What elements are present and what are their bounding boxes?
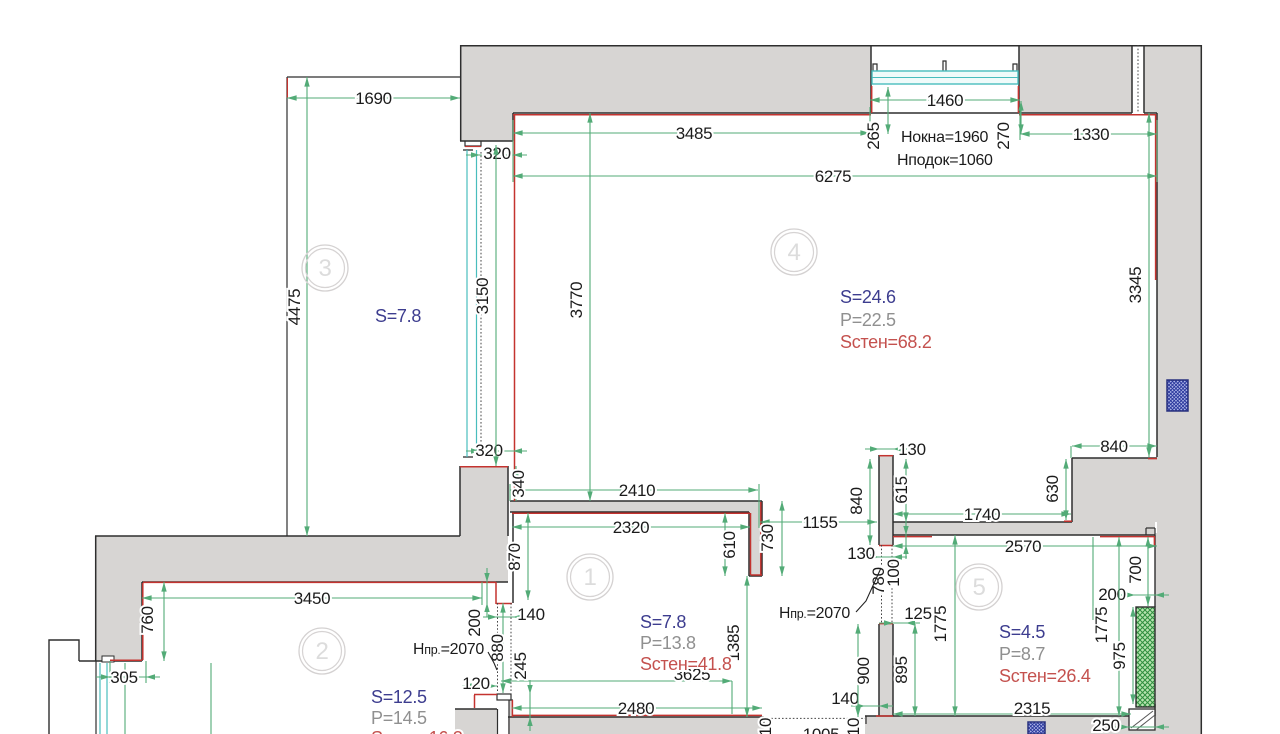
svg-text:Sстен=41.8: Sстен=41.8 — [640, 654, 732, 674]
svg-text:3485: 3485 — [676, 124, 713, 143]
svg-text:110: 110 — [844, 718, 863, 734]
svg-text:630: 630 — [1043, 475, 1062, 502]
svg-text:730: 730 — [758, 524, 777, 551]
svg-text:Sстен=16.3: Sстен=16.3 — [371, 728, 463, 734]
svg-text:4475: 4475 — [285, 289, 304, 326]
svg-text:110: 110 — [756, 718, 775, 734]
svg-text:5: 5 — [972, 574, 985, 601]
svg-text:Нокна=1960: Нокна=1960 — [901, 129, 989, 146]
svg-text:140: 140 — [831, 689, 858, 708]
svg-text:610: 610 — [720, 531, 739, 558]
svg-text:P=22.5: P=22.5 — [840, 310, 896, 330]
svg-text:870: 870 — [505, 543, 524, 570]
svg-text:1775: 1775 — [931, 606, 950, 643]
svg-text:2315: 2315 — [1014, 699, 1051, 718]
svg-text:1: 1 — [583, 564, 596, 591]
svg-text:320: 320 — [483, 144, 510, 163]
svg-text:3: 3 — [318, 255, 331, 282]
svg-text:305: 305 — [110, 668, 137, 687]
svg-text:200: 200 — [1098, 585, 1125, 604]
svg-text:700: 700 — [1126, 556, 1145, 583]
svg-text:2320: 2320 — [613, 518, 650, 537]
svg-text:P=8.7: P=8.7 — [999, 644, 1045, 664]
svg-text:760: 760 — [138, 606, 157, 633]
svg-text:1460: 1460 — [927, 91, 964, 110]
svg-text:Sстен=68.2: Sстен=68.2 — [840, 332, 932, 352]
svg-text:1155: 1155 — [802, 513, 837, 532]
svg-text:S=24.6: S=24.6 — [840, 287, 896, 307]
svg-text:3345: 3345 — [1126, 267, 1145, 304]
svg-text:840: 840 — [1100, 437, 1127, 456]
svg-text:1740: 1740 — [964, 505, 1001, 524]
svg-text:P=14.5: P=14.5 — [371, 708, 427, 728]
svg-text:270: 270 — [994, 122, 1013, 149]
svg-text:P=13.8: P=13.8 — [640, 633, 696, 653]
svg-text:200: 200 — [465, 609, 484, 636]
svg-text:Нподок=1060: Нподок=1060 — [897, 152, 993, 169]
svg-text:2: 2 — [315, 638, 328, 665]
svg-text:130: 130 — [847, 544, 874, 563]
svg-text:900: 900 — [854, 657, 873, 684]
svg-text:975: 975 — [1110, 642, 1129, 669]
svg-text:3450: 3450 — [294, 589, 331, 608]
svg-text:1005: 1005 — [803, 725, 840, 734]
svg-text:615: 615 — [892, 476, 911, 503]
svg-text:4: 4 — [787, 239, 800, 266]
svg-text:2480: 2480 — [618, 699, 655, 718]
svg-text:245: 245 — [511, 652, 530, 679]
svg-text:2570: 2570 — [1005, 537, 1042, 556]
svg-text:1690: 1690 — [355, 89, 392, 108]
svg-text:Sстен=26.4: Sстен=26.4 — [999, 666, 1091, 686]
svg-text:Нпр.=2070: Нпр.=2070 — [413, 641, 484, 658]
svg-text:250: 250 — [1092, 716, 1119, 734]
svg-text:130: 130 — [898, 440, 925, 459]
svg-text:140: 140 — [517, 605, 544, 624]
svg-text:2410: 2410 — [619, 481, 656, 500]
svg-text:125: 125 — [904, 604, 931, 623]
svg-text:3770: 3770 — [567, 282, 586, 319]
svg-text:265: 265 — [864, 122, 883, 149]
svg-text:S=7.8: S=7.8 — [640, 612, 686, 632]
svg-text:S=12.5: S=12.5 — [371, 687, 427, 707]
svg-text:Нпр.=2070: Нпр.=2070 — [779, 605, 850, 622]
svg-text:840: 840 — [847, 487, 866, 514]
svg-text:6275: 6275 — [815, 167, 852, 186]
svg-text:3150: 3150 — [473, 278, 492, 315]
svg-text:S=7.8: S=7.8 — [375, 306, 421, 326]
svg-text:320: 320 — [475, 441, 502, 460]
svg-text:120: 120 — [462, 674, 489, 693]
svg-text:S=4.5: S=4.5 — [999, 622, 1045, 642]
svg-text:1330: 1330 — [1073, 125, 1110, 144]
svg-text:340: 340 — [509, 470, 528, 497]
svg-text:780: 780 — [869, 567, 888, 594]
svg-text:1775: 1775 — [1092, 607, 1111, 644]
svg-text:895: 895 — [892, 656, 911, 683]
